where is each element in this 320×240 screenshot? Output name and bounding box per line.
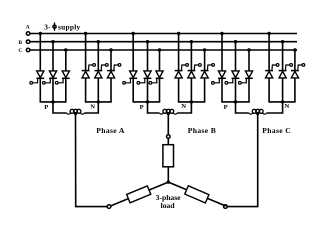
node neutral junction — [167, 180, 170, 183]
wire P-drop phase C — [236, 102, 249, 113]
junction phase C N2 tap — [281, 40, 284, 43]
junction phase C N3 tap — [293, 48, 296, 51]
node P phase B — [146, 100, 149, 103]
node P phase C — [234, 100, 237, 103]
resistor load B — [163, 145, 174, 167]
wire supply line C — [30, 49, 297, 51]
thyristor T14 (phase C P-group, from line B) — [225, 42, 239, 102]
thyristor T8 (phase B P-group, from line B) — [137, 42, 151, 102]
resistor load C — [185, 186, 209, 203]
svg-text:B: B — [18, 40, 22, 46]
wire phase C output — [227, 114, 258, 207]
terminal load C — [224, 205, 228, 209]
junction phase B N2 tap — [190, 40, 193, 43]
thyristor T5 (phase A N-group, to line B) — [94, 42, 108, 102]
junction phase B N1 tap — [177, 32, 180, 35]
svg-text:Phase B: Phase B — [188, 126, 216, 135]
terminal node B — [26, 40, 30, 44]
node N phase C — [281, 100, 284, 103]
wire N-bus phase A — [85, 101, 112, 103]
wire P-drop phase A — [53, 102, 67, 113]
svg-text:Phase C: Phase C — [262, 126, 291, 135]
thyristor T4 (phase A N-group, to line A) — [82, 34, 96, 102]
junction phase A P3 tap — [64, 48, 67, 51]
junction phase A N3 tap — [109, 48, 112, 51]
wire P-bus phase B — [133, 101, 161, 103]
svg-text:load: load — [161, 201, 176, 210]
resistor load A — [127, 186, 151, 203]
terminal node A — [26, 32, 30, 36]
wire N-drop phase B — [177, 102, 191, 113]
reactor LA (interphase reactor, phase A) — [67, 109, 85, 114]
svg-text:P: P — [44, 104, 48, 111]
node N phase B — [190, 100, 193, 103]
junction phase B P2 tap — [146, 40, 149, 43]
thyristor T18 (phase C N-group, to line C) — [291, 50, 305, 102]
wire load arm A (left) — [111, 182, 169, 206]
wire P-bus phase C — [221, 101, 249, 103]
wire load arm C (right) — [168, 182, 226, 206]
thyristor T9 (phase B P-group, from line C) — [149, 50, 163, 102]
junction phase B P3 tap — [158, 48, 161, 51]
junction phase A N2 tap — [97, 40, 100, 43]
reactor LB (interphase reactor, phase B) — [159, 109, 177, 114]
junction phase A P2 tap — [51, 40, 54, 43]
wire N-bus phase C — [268, 101, 295, 103]
wire supply line A — [30, 33, 297, 35]
junction phase C N1 tap — [267, 32, 270, 35]
junction phase C P1 tap — [220, 32, 223, 35]
junction reactor tap phase B — [167, 112, 170, 115]
thyristor T2 (phase A P-group, from line B) — [43, 42, 57, 102]
junction reactor tap phase A — [74, 112, 77, 115]
label 3-phi supply — [44, 22, 80, 31]
junction reactor tap phase C — [256, 112, 259, 115]
terminal node C — [26, 48, 30, 52]
wire phase A output — [76, 114, 108, 207]
node P phase A — [51, 100, 54, 103]
wire load B lead — [167, 138, 169, 144]
thyristor T11 (phase B N-group, to line B) — [188, 42, 202, 102]
terminal load A — [107, 205, 111, 209]
junction phase C P3 tap — [247, 48, 250, 51]
svg-text:supply: supply — [58, 23, 81, 32]
svg-text:N: N — [181, 103, 186, 110]
wire N-drop phase A — [84, 102, 98, 113]
junction phase C P2 tap — [234, 40, 237, 43]
thyristor T1 (phase A P-group, from line A) — [30, 34, 44, 102]
wire phase B output — [167, 114, 169, 135]
terminal load B — [167, 135, 171, 139]
thyristor T3 (phase A P-group, from line C) — [55, 50, 69, 102]
svg-text:C: C — [18, 48, 22, 54]
node N phase A — [97, 100, 100, 103]
junction phase A P1 tap — [39, 32, 42, 35]
thyristor T12 (phase B N-group, to line C) — [201, 50, 215, 102]
junction phase A N1 tap — [84, 32, 87, 35]
reactor LC (interphase reactor, phase C) — [249, 109, 267, 114]
wire P-drop phase B — [148, 102, 160, 113]
thyristor T7 (phase B P-group, from line A) — [123, 34, 137, 102]
svg-text:N: N — [285, 103, 290, 110]
svg-text:P: P — [224, 104, 228, 111]
wire P-bus phase A — [40, 101, 67, 103]
svg-text:Phase A: Phase A — [96, 126, 125, 135]
thyristor T15 (phase C P-group, from line C) — [239, 50, 253, 102]
thyristor T10 (phase B N-group, to line A) — [175, 34, 189, 102]
junction phase B N3 tap — [203, 48, 206, 51]
label 3-phase load — [156, 193, 182, 210]
thyristor T17 (phase C N-group, to line B) — [279, 42, 293, 102]
junction phase B P1 tap — [132, 32, 135, 35]
thyristor T13 (phase C P-group, from line A) — [212, 34, 226, 102]
svg-text:3-: 3- — [44, 23, 51, 32]
wire N-bus phase B — [178, 101, 205, 103]
thyristor T6 (phase A N-group, to line C) — [107, 50, 121, 102]
wire N-drop phase C — [267, 102, 283, 113]
wire supply line B — [30, 41, 297, 43]
svg-text:A: A — [26, 25, 30, 31]
svg-text:P: P — [140, 104, 144, 111]
thyristor T16 (phase C N-group, to line A) — [265, 34, 279, 102]
wire load B to neutral — [167, 167, 169, 182]
svg-text:N: N — [90, 104, 95, 111]
